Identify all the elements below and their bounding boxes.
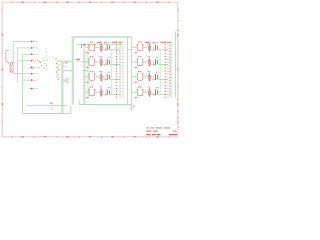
title text: date — [146, 134, 177, 135]
pin label P3 — [31, 54, 38, 56]
diode D6 — [156, 59, 158, 65]
wire feed — [85, 76, 89, 78]
connector J1 body — [10, 63, 13, 73]
wire — [110, 63, 120, 65]
diode D9 — [81, 44, 86, 48]
wire — [158, 94, 168, 96]
wire — [143, 91, 148, 93]
wire — [103, 63, 107, 65]
wire — [110, 78, 120, 80]
pin label P4 — [31, 60, 38, 62]
pin label P1 — [31, 41, 38, 43]
wire stub — [104, 93, 106, 97]
wire bus right-1 — [175, 32, 177, 98]
pin label P8 — [31, 88, 38, 90]
optocoupler U3 — [88, 73, 95, 80]
wire to pin P1 — [13, 40, 31, 42]
wire — [95, 46, 100, 48]
diode D3 — [107, 74, 109, 80]
wire AB stub — [128, 49, 132, 51]
resistor R7 — [148, 72, 150, 81]
wire feed — [132, 91, 138, 93]
diode D8 — [156, 89, 158, 95]
wire joint A — [111, 50, 113, 94]
sheet border frame — [2, 2, 178, 137]
wire to pin P8 — [29, 88, 31, 90]
wire rail1 — [27, 104, 67, 106]
wire — [103, 78, 107, 80]
wire mid rail b — [81, 61, 90, 63]
wire rail3 — [79, 101, 131, 105]
wire — [151, 78, 155, 80]
pin label P7 — [31, 79, 38, 81]
title block box — [145, 126, 178, 137]
resistor R1 cluster — [56, 59, 60, 80]
resistor R3 — [100, 72, 102, 81]
wire feed — [132, 76, 138, 78]
pin label P5 — [31, 66, 38, 68]
wire rail row1-top — [77, 43, 123, 45]
pin label P6 — [31, 73, 38, 75]
wire — [151, 63, 155, 65]
wire bus AB-2 — [131, 37, 133, 109]
optocoupler U8 — [137, 89, 144, 96]
label bank A top — [97, 42, 122, 44]
junction dot — [133, 106, 135, 107]
wire to pin P4 — [18, 60, 31, 62]
wire top rail — [71, 36, 131, 38]
wire stub — [104, 62, 106, 66]
wire stub — [153, 62, 155, 66]
wire joint B — [159, 50, 161, 94]
label R3 — [65, 62, 68, 67]
wire — [158, 63, 168, 65]
wire — [158, 78, 168, 80]
pin label P2 — [31, 47, 38, 49]
wire — [143, 46, 148, 48]
wire bottom rail — [22, 105, 71, 113]
wire to pin P3 — [22, 53, 31, 55]
optocoupler U7 — [137, 73, 144, 80]
wire — [151, 94, 155, 96]
wire bus left 2 — [17, 48, 19, 83]
connector J11 pins — [168, 42, 171, 95]
margin marks — [177, 10, 180, 128]
diode D7 — [156, 74, 158, 80]
wire stub — [104, 48, 106, 52]
diode D4 — [107, 89, 109, 95]
wire — [143, 76, 148, 78]
optocoupler U6 — [137, 59, 144, 66]
wire to pin P6 — [13, 73, 31, 75]
label bank B top — [145, 42, 170, 44]
wire bus right-2 — [177, 32, 179, 98]
wire — [103, 94, 107, 96]
diode D5 — [156, 45, 158, 51]
diode D2 — [107, 59, 109, 65]
diode D1 — [107, 45, 109, 51]
wire stub — [104, 77, 106, 81]
wire bus A-left — [87, 44, 89, 97]
title text: Sheet — [146, 126, 170, 129]
wire — [158, 49, 168, 51]
wire bus B-pin — [170, 41, 172, 98]
resistor R2 — [100, 58, 102, 67]
wire mid rail — [60, 60, 73, 62]
label R2 — [76, 59, 80, 60]
label net1 — [50, 103, 53, 111]
wire feed — [85, 46, 89, 48]
wire feed — [132, 46, 138, 48]
wire — [110, 49, 120, 51]
sheet arrow — [63, 77, 69, 85]
wire — [103, 49, 107, 51]
resistor R1 — [100, 43, 102, 52]
optocoupler U2 — [88, 59, 95, 66]
transistor Q1 cluster — [38, 48, 57, 70]
wire — [95, 76, 100, 78]
optocoupler U4 — [88, 89, 95, 96]
resistor R8 — [148, 88, 150, 97]
wire — [143, 61, 148, 63]
optocoupler U1 — [88, 44, 95, 51]
connector J1 bracket — [6, 51, 9, 64]
wire bus left 1 — [12, 41, 14, 73]
resistor R5 — [148, 43, 150, 52]
wire bus mid 2 — [72, 37, 74, 105]
wire to pin P7 — [22, 79, 30, 81]
resistor R6 — [148, 58, 150, 67]
optocoupler U5 — [137, 44, 144, 51]
wire — [151, 49, 155, 51]
wire stub — [153, 48, 155, 52]
wire bus A-pin — [119, 41, 121, 98]
wire bus AB-1 — [127, 37, 129, 105]
wire to pin P2 — [18, 47, 31, 49]
wire bus mid 1 — [61, 61, 63, 114]
wire bus left 3 — [21, 54, 23, 113]
wire — [95, 61, 100, 63]
resistor R4 — [100, 88, 102, 97]
frame ruler ticks — [1, 1, 178, 137]
wire — [95, 91, 100, 93]
wire stub — [153, 93, 155, 97]
wire bus mid 3 — [83, 49, 85, 104]
wire stub node N5 — [31, 68, 34, 70]
wire stub — [153, 77, 155, 81]
connector J9 pins — [116, 42, 117, 98]
wire to pin P5 — [29, 66, 31, 68]
title text: file — [146, 131, 176, 132]
wire feed — [85, 61, 89, 63]
wire feed — [132, 61, 138, 63]
connector J10 pins — [165, 42, 166, 98]
wire mid rail 2 — [64, 70, 88, 72]
wire bus AB-2 foot — [130, 108, 132, 111]
wire — [110, 94, 120, 96]
wire feed — [85, 91, 89, 93]
